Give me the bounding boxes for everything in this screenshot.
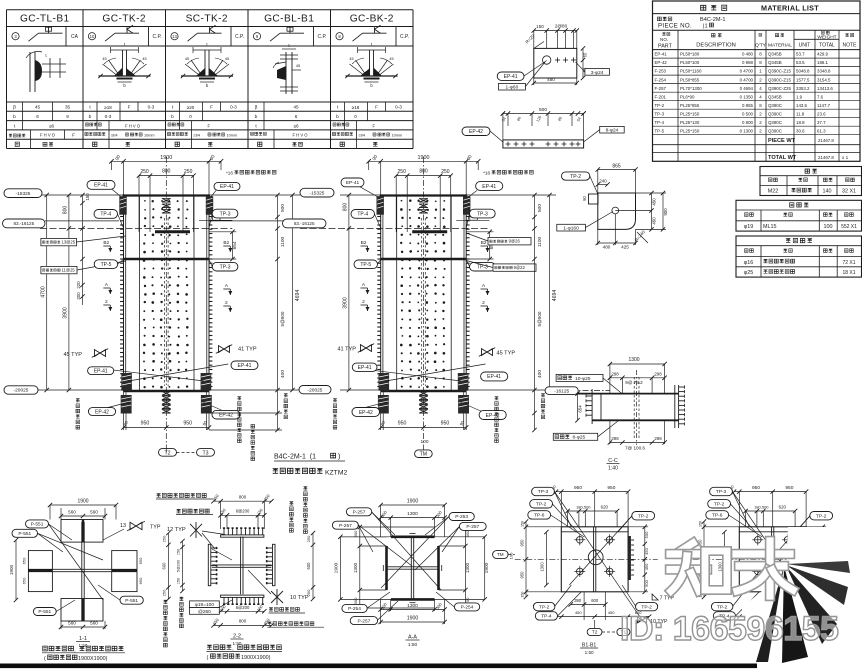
- svg-text:C.P.: C.P.: [235, 34, 244, 40]
- svg-text:250: 250: [184, 169, 193, 175]
- svg-text:30.6: 30.6: [796, 128, 805, 133]
- svg-text:≥18: ≥18: [352, 105, 360, 110]
- svg-text:≥t/4: ≥t/4: [194, 133, 201, 138]
- svg-text:TP-3: TP-3: [220, 265, 231, 271]
- svg-text:F-257: F-257: [655, 86, 667, 91]
- svg-text:T2: T2: [164, 450, 170, 456]
- svg-text:P-551: P-551: [125, 598, 138, 604]
- svg-text:EP-41: EP-41: [346, 180, 360, 186]
- svg-text:2-2: 2-2: [233, 634, 241, 640]
- svg-text:950: 950: [519, 571, 524, 579]
- svg-text:KZTM2: KZTM2: [325, 470, 347, 477]
- svg-text:11.8: 11.8: [796, 111, 805, 116]
- svg-text:1900: 1900: [334, 562, 340, 573]
- svg-text:TP-2: TP-2: [816, 513, 827, 519]
- svg-text:250: 250: [162, 589, 167, 596]
- svg-text:b: b: [13, 114, 16, 120]
- svg-text:65: 65: [583, 52, 588, 57]
- svg-text:TP-2: TP-2: [638, 513, 649, 519]
- svg-text:6@200: 6@200: [236, 605, 250, 610]
- svg-text:3900: 3900: [63, 307, 69, 319]
- svg-text:PIECE NO.: PIECE NO.: [658, 23, 692, 30]
- svg-text:1300: 1300: [465, 562, 470, 573]
- svg-text:560: 560: [90, 621, 98, 626]
- svg-text:500: 500: [280, 204, 286, 212]
- svg-text:150: 150: [177, 549, 181, 555]
- svg-text:250: 250: [140, 169, 149, 175]
- svg-text:≥20: ≥20: [187, 105, 195, 110]
- svg-text:1300: 1300: [407, 511, 418, 517]
- svg-text:300: 300: [353, 597, 358, 604]
- svg-text:45: 45: [35, 105, 41, 110]
- svg-text:298: 298: [654, 371, 662, 376]
- svg-text:P-254: P-254: [461, 605, 474, 611]
- svg-text:TP-3: TP-3: [716, 489, 727, 495]
- svg-text:-16125: -16125: [554, 388, 569, 394]
- svg-text:EP-41: EP-41: [94, 369, 108, 375]
- svg-text:≥18: ≥18: [104, 105, 112, 110]
- svg-text:390: 390: [574, 598, 582, 603]
- svg-text:90: 90: [582, 196, 587, 201]
- svg-text:900: 900: [663, 208, 668, 216]
- svg-text:P-551: P-551: [18, 531, 31, 537]
- svg-text:12 TYP: 12 TYP: [167, 527, 186, 533]
- svg-text:φ16: φ16: [744, 260, 754, 266]
- svg-text:950: 950: [752, 485, 760, 491]
- svg-text:φ25: φ25: [744, 270, 754, 276]
- svg-text:600: 600: [591, 598, 599, 603]
- svg-text:MATERIAL: MATERIAL: [768, 43, 792, 49]
- svg-text:B2: B2: [103, 240, 109, 246]
- svg-text:0 4700: 0 4700: [740, 77, 754, 82]
- svg-text:≥6: ≥6: [293, 124, 299, 129]
- svg-text:1147.7: 1147.7: [817, 103, 831, 108]
- svg-text:650: 650: [22, 557, 27, 564]
- svg-text:620: 620: [779, 505, 787, 510]
- svg-text:6: 6: [295, 114, 298, 119]
- svg-text:53.5: 53.5: [796, 60, 805, 65]
- svg-text:3-φ24: 3-φ24: [591, 70, 604, 76]
- svg-text:PL25*150: PL25*150: [680, 128, 700, 133]
- svg-text:0-3: 0-3: [395, 105, 402, 110]
- svg-text:B2: B2: [223, 240, 229, 246]
- svg-text:0 855: 0 855: [742, 103, 754, 108]
- svg-text:100: 100: [420, 439, 428, 445]
- svg-text:EP-41: EP-41: [655, 52, 668, 57]
- svg-text:1900X1900): 1900X1900): [78, 656, 108, 662]
- svg-text:PL25*130: PL25*130: [680, 120, 700, 125]
- svg-text:45: 45: [389, 57, 393, 61]
- svg-text:Q390C: Q390C: [768, 120, 782, 125]
- svg-text:1:50: 1:50: [408, 642, 418, 648]
- svg-text:45: 45: [349, 57, 353, 61]
- svg-text:B1-B1: B1-B1: [582, 643, 597, 649]
- svg-text:PL50*1160: PL50*1160: [680, 69, 702, 74]
- svg-text:3900: 3900: [343, 297, 349, 309]
- svg-text:400: 400: [537, 370, 543, 378]
- svg-text:3348.8: 3348.8: [817, 69, 831, 74]
- svg-text:TP-2: TP-2: [570, 174, 581, 180]
- svg-text:950: 950: [141, 421, 150, 427]
- svg-text:b: b: [171, 114, 174, 120]
- svg-text:1.9: 1.9: [796, 94, 803, 99]
- svg-text:B2: B2: [361, 240, 367, 246]
- svg-text:T2: T2: [592, 630, 598, 636]
- svg-text:MATERIAL LIST: MATERIAL LIST: [761, 4, 819, 13]
- svg-text:4694: 4694: [552, 290, 558, 302]
- svg-text:F-253: F-253: [655, 69, 667, 74]
- svg-text:TP-2: TP-2: [714, 502, 725, 508]
- svg-text:950: 950: [183, 421, 192, 427]
- svg-text:654: 654: [232, 241, 238, 249]
- svg-text:1900: 1900: [9, 564, 14, 575]
- svg-text:5@500: 5@500: [537, 311, 542, 326]
- svg-text:TOTAL WT: TOTAL WT: [768, 155, 797, 161]
- svg-text:TM: TM: [497, 552, 504, 557]
- svg-text:F-201: F-201: [655, 94, 667, 99]
- svg-text:M22: M22: [768, 189, 779, 195]
- svg-text:Q390C-Z25: Q390C-Z25: [768, 86, 791, 91]
- svg-text:150: 150: [536, 24, 544, 29]
- svg-text:11@25: 11@25: [62, 268, 76, 273]
- svg-text:10 TYP: 10 TYP: [290, 595, 309, 601]
- svg-text:298: 298: [611, 436, 619, 441]
- svg-text:3154.5: 3154.5: [817, 77, 831, 82]
- svg-text:53.7: 53.7: [796, 52, 805, 57]
- svg-text:-15325: -15325: [310, 190, 325, 196]
- svg-text:TP-4: TP-4: [100, 212, 111, 218]
- svg-text:1-φ160: 1-φ160: [563, 226, 579, 232]
- svg-text:300: 300: [353, 530, 358, 537]
- svg-text:T3: T3: [202, 450, 208, 456]
- svg-text:150: 150: [698, 521, 702, 527]
- svg-text:φ19: φ19: [744, 224, 754, 230]
- svg-text:4700: 4700: [40, 286, 46, 298]
- svg-text:≥t/4: ≥t/4: [359, 133, 366, 138]
- svg-text:298: 298: [611, 371, 619, 376]
- svg-text:Q390C-Z15: Q390C-Z15: [768, 69, 791, 74]
- svg-text:@260: @260: [198, 609, 211, 615]
- svg-text:13@25: 13@25: [62, 240, 76, 245]
- svg-text:13: 13: [172, 34, 177, 39]
- svg-text:P-253: P-253: [455, 514, 468, 520]
- svg-text:18.8: 18.8: [796, 120, 805, 125]
- svg-text:4694: 4694: [295, 290, 301, 302]
- svg-text:10-φ25: 10-φ25: [568, 376, 590, 382]
- svg-text:150: 150: [520, 521, 524, 527]
- svg-text:SC-TK-2: SC-TK-2: [186, 14, 228, 25]
- svg-text:Q'TY: Q'TY: [755, 43, 767, 49]
- svg-text:21467.8: 21467.8: [818, 155, 834, 160]
- svg-text:2@80: 2@80: [555, 24, 568, 29]
- svg-text:240: 240: [599, 179, 607, 184]
- svg-text:PL50*180: PL50*180: [680, 52, 700, 57]
- svg-text:200: 200: [76, 292, 81, 300]
- svg-text:298: 298: [654, 436, 662, 441]
- svg-text:950: 950: [607, 485, 615, 491]
- svg-text:2: 2: [482, 300, 485, 306]
- svg-text:P-257: P-257: [353, 510, 366, 516]
- svg-text:TP-4: TP-4: [357, 212, 368, 218]
- svg-text:UNIT: UNIT: [799, 43, 811, 49]
- svg-text:TP-3: TP-3: [477, 265, 488, 271]
- svg-text:1:50: 1:50: [233, 641, 242, 646]
- svg-text:Q390C-Z15: Q390C-Z15: [768, 77, 791, 82]
- svg-text:35: 35: [65, 105, 71, 110]
- svg-text:PL25*855: PL25*855: [680, 103, 700, 108]
- svg-text:1100: 1100: [280, 237, 286, 248]
- svg-text:TP-2: TP-2: [536, 502, 547, 508]
- svg-text:TP-3: TP-3: [655, 111, 665, 116]
- svg-text:Q390C: Q390C: [768, 103, 782, 108]
- svg-text:PART: PART: [658, 44, 673, 50]
- svg-text:WEIGHT: WEIGHT: [817, 35, 836, 41]
- svg-text:300: 300: [465, 530, 470, 537]
- svg-text:b: b: [255, 114, 258, 120]
- svg-text:150: 150: [520, 592, 524, 598]
- svg-text:F H V O: F H V O: [125, 123, 141, 128]
- svg-text:EP-41: EP-41: [238, 363, 252, 369]
- svg-text:5@200: 5@200: [177, 560, 181, 572]
- svg-text:450: 450: [644, 547, 649, 554]
- svg-text:9@22: 9@22: [514, 265, 526, 270]
- svg-text:100: 100: [508, 552, 513, 559]
- svg-text:140: 140: [823, 189, 832, 195]
- svg-text:β: β: [13, 105, 16, 111]
- svg-text:b: b: [89, 114, 92, 120]
- svg-text:EP-41: EP-41: [358, 365, 372, 371]
- svg-text:1-φ60: 1-φ60: [506, 85, 519, 91]
- svg-text:GC-TL-B1: GC-TL-B1: [20, 14, 70, 25]
- svg-text:F H V O: F H V O: [292, 133, 308, 138]
- svg-text:0-3: 0-3: [105, 114, 112, 119]
- svg-text:552 X1: 552 X1: [841, 224, 857, 230]
- svg-text:800: 800: [239, 619, 247, 624]
- svg-text:P-551: P-551: [31, 522, 44, 528]
- svg-text:0: 0: [189, 114, 192, 119]
- svg-text:PL50*855: PL50*855: [680, 77, 700, 82]
- svg-text:Q390C: Q390C: [768, 128, 782, 133]
- svg-text:0 800: 0 800: [742, 120, 754, 125]
- svg-text:0 988: 0 988: [742, 60, 754, 65]
- svg-text:B4C-2M-1: B4C-2M-1: [700, 17, 726, 23]
- svg-text:18 X1: 18 X1: [842, 270, 855, 276]
- svg-text:TP-2: TP-2: [539, 604, 550, 610]
- svg-text:620: 620: [601, 505, 609, 510]
- svg-text:-20025: -20025: [308, 387, 323, 393]
- svg-text:1900X1900): 1900X1900): [241, 655, 271, 661]
- svg-text:650: 650: [138, 577, 143, 584]
- svg-text:654: 654: [578, 405, 583, 413]
- svg-text:13: 13: [120, 523, 126, 529]
- svg-text:F: F: [208, 123, 211, 128]
- svg-text:8-φ24: 8-φ24: [606, 128, 619, 134]
- svg-text:0: 0: [354, 114, 357, 119]
- svg-text:A-A: A-A: [408, 635, 417, 641]
- svg-text:TYP: TYP: [150, 525, 161, 531]
- svg-text:180,500: 180,500: [754, 505, 769, 510]
- svg-text:150: 150: [85, 193, 90, 201]
- svg-text:500: 500: [539, 107, 547, 113]
- svg-text:F: F: [128, 105, 131, 110]
- svg-text:0 4694: 0 4694: [740, 86, 754, 91]
- svg-text:F-254: F-254: [655, 77, 667, 82]
- svg-text:865: 865: [612, 163, 621, 169]
- svg-text:GC-BK-2: GC-BK-2: [350, 14, 394, 25]
- svg-text:45: 45: [296, 64, 300, 68]
- svg-text:0 1300: 0 1300: [740, 128, 754, 133]
- svg-text:F: F: [373, 123, 376, 128]
- svg-text:|1: |1: [703, 24, 708, 30]
- svg-text:6: 6: [36, 114, 39, 119]
- svg-text:23.6: 23.6: [817, 111, 826, 116]
- svg-text:1300: 1300: [540, 562, 545, 572]
- svg-text:P-257: P-257: [466, 524, 479, 530]
- svg-text:TP-5: TP-5: [360, 262, 371, 268]
- svg-text:950: 950: [574, 485, 582, 491]
- svg-text:-15325: -15325: [16, 191, 31, 197]
- svg-text:186.1: 186.1: [817, 60, 829, 65]
- svg-text:650: 650: [138, 557, 143, 564]
- svg-text:-20025: -20025: [14, 388, 29, 394]
- svg-text:10mm: 10mm: [392, 134, 403, 138]
- svg-text:TM: TM: [420, 452, 428, 458]
- svg-text:650: 650: [22, 577, 27, 584]
- svg-text:500: 500: [537, 204, 543, 212]
- svg-text:TP-6: TP-6: [712, 513, 723, 519]
- svg-text:800: 800: [63, 206, 69, 215]
- svg-text:2: 2: [362, 299, 365, 305]
- svg-text:PL6*90: PL6*90: [680, 94, 695, 99]
- svg-text:≥6: ≥6: [49, 124, 55, 129]
- svg-text:425: 425: [621, 245, 629, 250]
- svg-text:TP-5: TP-5: [101, 262, 112, 268]
- svg-text:PL50*100: PL50*100: [680, 60, 700, 65]
- svg-text:400: 400: [280, 370, 286, 378]
- svg-text:B2: B2: [481, 240, 487, 246]
- svg-text:TP-3: TP-3: [538, 489, 549, 495]
- svg-text:1:50: 1:50: [585, 650, 594, 655]
- svg-text:EP-41: EP-41: [94, 183, 108, 189]
- svg-text:CA: CA: [71, 34, 79, 40]
- svg-text:0-3: 0-3: [230, 105, 237, 110]
- svg-text:450: 450: [608, 610, 615, 615]
- svg-text:45: 45: [102, 57, 106, 61]
- svg-text:EP-42: EP-42: [469, 129, 483, 135]
- svg-text:250: 250: [398, 169, 407, 175]
- svg-text:TP-3: TP-3: [477, 211, 488, 217]
- svg-text:5048.8: 5048.8: [796, 69, 810, 74]
- svg-text:(: (: [207, 655, 209, 661]
- svg-text:Q345B: Q345B: [768, 94, 782, 99]
- svg-text:C.P.: C.P.: [317, 34, 326, 40]
- svg-text:TP-4: TP-4: [541, 614, 552, 620]
- svg-text:0 4700: 0 4700: [740, 69, 754, 74]
- svg-text:950: 950: [785, 485, 793, 491]
- svg-text:EP-42: EP-42: [655, 60, 668, 65]
- svg-text:72 X1: 72 X1: [842, 260, 855, 266]
- svg-text:450: 450: [652, 217, 657, 225]
- svg-text:ID: 166596155: ID: 166596155: [620, 610, 838, 648]
- svg-text:1900: 1900: [484, 562, 490, 573]
- svg-text:250: 250: [441, 169, 450, 175]
- svg-text:37.7: 37.7: [817, 120, 826, 125]
- svg-text:PIECE WT: PIECE WT: [768, 138, 796, 144]
- svg-text:450: 450: [575, 610, 582, 615]
- svg-text:180,500: 180,500: [576, 505, 591, 510]
- svg-text:500: 500: [644, 531, 649, 538]
- svg-text:41 TYP: 41 TYP: [238, 347, 257, 353]
- svg-text:83.-16125: 83.-16125: [13, 221, 34, 226]
- svg-text:EP-41: EP-41: [220, 184, 234, 190]
- svg-text:600: 600: [306, 562, 311, 570]
- svg-text:Q345B: Q345B: [768, 60, 782, 65]
- svg-text:β: β: [255, 105, 258, 111]
- svg-text:500: 500: [644, 579, 649, 586]
- svg-text:0 1350: 0 1350: [740, 94, 754, 99]
- svg-text:P-254: P-254: [348, 606, 361, 612]
- svg-text:13413.6: 13413.6: [817, 86, 833, 91]
- svg-text:P-257: P-257: [339, 523, 352, 529]
- svg-text:10mm: 10mm: [227, 134, 238, 138]
- svg-text:P-257: P-257: [357, 618, 370, 624]
- svg-text:ML15: ML15: [763, 224, 777, 230]
- svg-text:EP-41: EP-41: [482, 184, 496, 190]
- svg-text:480: 480: [547, 77, 555, 82]
- svg-text:250: 250: [162, 535, 167, 542]
- svg-text:1577.5: 1577.5: [796, 77, 810, 82]
- svg-text:EP-42: EP-42: [219, 413, 233, 419]
- svg-text:560: 560: [68, 510, 76, 515]
- svg-text:1300: 1300: [353, 562, 358, 573]
- svg-text:C-C: C-C: [608, 458, 618, 464]
- svg-text:61.3: 61.3: [817, 128, 826, 133]
- svg-text:DESCRIPTION: DESCRIPTION: [696, 43, 736, 49]
- svg-text:TOTAL: TOTAL: [819, 43, 835, 49]
- svg-text:2: 2: [225, 300, 228, 306]
- svg-text:800: 800: [343, 203, 349, 212]
- svg-text:B4C-2M-1 (1: B4C-2M-1 (1: [274, 454, 316, 461]
- svg-text:TP-4: TP-4: [655, 120, 665, 125]
- svg-text:x 1: x 1: [842, 155, 849, 160]
- svg-text:F: F: [375, 105, 378, 110]
- svg-text:EP-42: EP-42: [359, 410, 373, 416]
- svg-text:(: (: [44, 656, 46, 662]
- svg-text:P-551: P-551: [38, 609, 51, 615]
- svg-text:C.P.: C.P.: [400, 34, 409, 40]
- svg-text:45: 45: [142, 57, 146, 61]
- svg-text:450: 450: [652, 198, 657, 206]
- svg-text:450: 450: [644, 563, 649, 570]
- svg-text:45 TYP: 45 TYP: [63, 352, 82, 358]
- svg-text:GC-BL-B1: GC-BL-B1: [264, 14, 314, 25]
- svg-text:0 480: 0 480: [742, 52, 754, 57]
- svg-text:C.P.: C.P.: [152, 34, 161, 40]
- svg-text:PL25*150: PL25*150: [680, 111, 700, 116]
- svg-text:1100: 1100: [537, 237, 543, 248]
- svg-text:TP-3: TP-3: [220, 211, 231, 217]
- svg-text:220: 220: [76, 281, 81, 289]
- svg-text:*16: *16: [226, 171, 233, 176]
- svg-text:480: 480: [603, 245, 611, 250]
- svg-text:7@ 100.6: 7@ 100.6: [625, 446, 645, 451]
- svg-text:143.5: 143.5: [796, 103, 808, 108]
- svg-text:TP-6: TP-6: [534, 513, 545, 519]
- svg-text:600: 600: [162, 562, 167, 570]
- svg-text:TP-2: TP-2: [655, 103, 665, 108]
- svg-text:): ): [338, 454, 340, 461]
- svg-text:1300: 1300: [718, 562, 723, 572]
